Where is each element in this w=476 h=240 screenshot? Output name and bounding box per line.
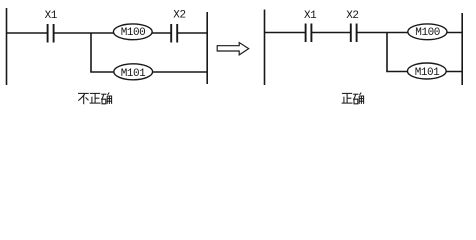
svg-text:X1: X1 (304, 10, 317, 22)
wire M100 to X2 (152, 32, 171, 34)
wire X2 to junction (357, 32, 408, 34)
right power rail (incorrect diagram) (206, 12, 208, 84)
svg-text:X1: X1 (45, 10, 58, 22)
node junction before coils (386, 33, 388, 72)
wire X1 to X2 (312, 32, 351, 34)
wire X1 to M100 coil (54, 32, 114, 34)
svg-text:M100: M100 (121, 27, 146, 39)
svg-text:M101: M101 (415, 67, 440, 79)
coil M100 (left diagram) (113, 24, 152, 40)
left power rail (incorrect diagram) (6, 8, 8, 85)
coil M100 (right diagram) (408, 24, 447, 40)
wire X2 to right rail (178, 32, 208, 34)
contact X2 (right diagram) (351, 24, 357, 43)
arrow (transform) hollow right arrow (217, 43, 249, 55)
right power rail (correct diagram) (461, 13, 463, 85)
wire rail to X1 (264, 32, 305, 34)
wire M101 to right rail (446, 71, 462, 73)
wire junction to M101 (386, 71, 408, 73)
coil M101 (right diagram) (407, 63, 446, 79)
left power rail (correct diagram) (264, 10, 266, 86)
svg-text:M101: M101 (121, 68, 146, 80)
contact X1 (right diagram) (306, 24, 312, 43)
wire rail to X1 (6, 32, 47, 34)
caption 正确 (correct) drawn as strokes (342, 93, 364, 104)
svg-text:M100: M100 (415, 27, 440, 39)
svg-text:X2: X2 (346, 10, 358, 22)
contact X1 (left diagram) (48, 24, 54, 43)
wire M100 to right rail (447, 32, 463, 34)
caption 不正确 (incorrect) drawn as strokes (78, 93, 112, 105)
svg-text:X2: X2 (173, 10, 185, 22)
node junction after X1 (90, 33, 92, 72)
contact X2 (left diagram) (171, 24, 177, 43)
wire junction to M101 (90, 71, 114, 73)
coil M101 (left diagram) (114, 64, 153, 80)
wire M101 to right rail (153, 71, 208, 73)
